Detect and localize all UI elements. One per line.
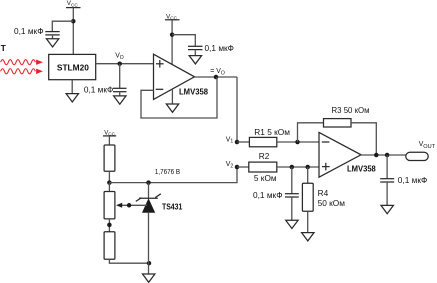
svg-text:0,1 мкФ: 0,1 мкФ [205,43,234,53]
capacitor C3 [188,46,203,49]
svg-text:LMV358: LMV358 [347,164,376,174]
ground (STLM20) [66,80,78,102]
power rail VCC (op-amp U1A) [165,14,180,21]
resistor Rc (divider bottom) [104,232,115,259]
capacitor C1 [45,32,59,35]
junction dot [170,32,175,37]
capacitor C2 [113,88,127,91]
svg-text:TS431: TS431 [162,202,182,212]
wire R3 to output [351,123,376,155]
svg-text:1,7676 В: 1,7676 В [155,169,181,176]
wire TS431 cathode [148,183,150,199]
wire TS431 reference with arrow to Rb [116,203,147,208]
resistor Ra (divider top) [104,145,115,171]
svg-text:0,1 мкФ: 0,1 мкФ [253,190,282,200]
wire Ra to node 1,7676 В [108,171,110,182]
junction dot [71,19,76,24]
temperature sensor STLM20 [49,54,96,79]
wire V1 to R1 [237,141,249,143]
ground (C4) [286,197,298,229]
resistor Rb (divider middle, adjustable) [104,192,115,219]
resistor R3 [324,119,352,127]
wire TS431 anode down [148,213,150,274]
ground (R4) [302,211,314,241]
wire R1 to inverting input U1B [277,141,319,143]
wire Rc to ground rail [109,259,149,263]
junction dot output/R3 [374,153,379,158]
wire tap to R4 [307,167,309,183]
op-amp U1A LMV358 [154,54,195,99]
svg-text:0,1 мкФ: 0,1 мкФ [14,26,43,36]
junction node = VO [214,75,219,80]
resistor R4 [302,183,313,211]
svg-text:R1 5 кОм: R1 5 кОм [254,127,290,137]
op-amp U1B LMV358 [319,132,361,177]
svg-text:R4: R4 [318,188,329,198]
wire = VO down to V1 [236,77,238,142]
junction dot Rb-Rc [107,223,112,228]
ground (TS431 / divider) [143,274,155,282]
wire node to resistor Rb [108,183,110,192]
wire feedback U1A output to inverting input [141,77,217,118]
capacitor C4 [285,194,299,197]
ground (C5) [381,182,393,214]
svg-text:T: T [1,43,7,53]
svg-text:STLM20: STLM20 [57,63,89,73]
ground (C2) [114,92,126,105]
wire U1A output [195,76,238,78]
wire V2 to R2 [237,166,249,168]
wire VCC rail down to STLM20 [72,8,74,55]
wire output to capacitor C5 [386,155,388,179]
junction node V2 [235,165,240,170]
junction node divider top [107,180,112,185]
svg-text:LMV358: LMV358 [179,87,208,97]
resistor R1 [249,137,276,146]
junction node V0 [117,61,122,65]
wire net 1,7676 В to V2 [109,167,237,183]
power rail VCC (divider) [103,129,116,136]
junction dot anode/ground [147,261,152,266]
wire junction to capacitor C3 [172,35,195,47]
power rail VCC (sensor supply) [66,0,81,7]
svg-text:0,1 мкФ: 0,1 мкФ [398,175,427,185]
ground (op-amp U1A) [166,89,178,112]
junction dot C4 tap [290,165,295,170]
capacitor C5 [380,179,394,182]
heat wave arrow 1 [1,60,43,65]
ground (C3) [189,50,201,64]
wire tap to capacitor C4 [291,167,293,194]
junction dot inverting node [295,140,300,145]
wire VCC rail to resistor Ra [108,136,110,145]
wire V0 node to capacitor C2 [119,64,121,89]
svg-text:50 кОм: 50 кОм [318,198,346,208]
svg-text:R3 50 кОм: R3 50 кОм [332,105,370,115]
svg-text:5 кОм: 5 кОм [254,173,277,183]
shunt reference TS431 [136,194,161,213]
wire STLM20 output to op-amp U1A [96,63,154,65]
junction dot R4 tap [305,165,310,170]
wire Rb to Rc [108,219,110,232]
wire junction to capacitor C1 [52,21,73,31]
wire inverting node up to R3 [298,123,324,142]
resistor R2 [249,162,277,172]
wire U1B output to VOUT [361,154,406,156]
terminal VOUT [406,152,428,160]
junction dot TS431 cathode [146,180,151,185]
svg-text:R2: R2 [259,151,270,161]
ground (C1) [46,35,58,47]
junction dot output/C5 [385,153,390,158]
wire VCC rail to op-amp U1A top [171,20,173,65]
junction node V1 [235,140,240,145]
junction dot reference [127,203,132,208]
wire R2 to non-inverting input U1B [277,166,319,168]
heat wave arrow 2 [1,69,43,74]
svg-text:0,1 мкФ: 0,1 мкФ [84,84,113,94]
